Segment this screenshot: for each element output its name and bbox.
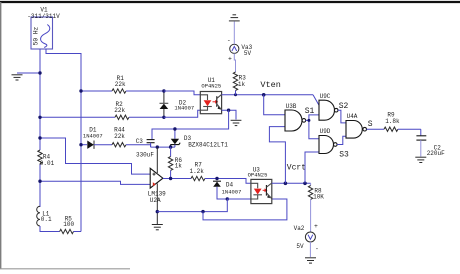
diode D1: [81, 126, 112, 149]
resistor R1: [81, 75, 164, 93]
wire R1 line into U1 pin1: [164, 91, 200, 95]
svg-text:C3: C3: [136, 138, 144, 145]
wire Va3 to inverted ground: [233, 22, 235, 45]
zener diode D3 BZX84C12LT1: [170, 129, 229, 149]
voltage source V1: [27, 7, 60, 50]
svg-text:22k: 22k: [114, 133, 125, 140]
svg-text:1k: 1k: [238, 81, 246, 88]
junction: [307, 119, 310, 122]
junction: [169, 177, 172, 180]
svg-text:+: +: [228, 56, 232, 63]
wire S1 down to U9D input A: [309, 120, 319, 138]
svg-text:+: +: [314, 223, 318, 230]
svg-text:U9C: U9C: [320, 93, 331, 100]
wire V1 left pin to rail1: [39, 49, 41, 150]
svg-text:22k: 22k: [114, 107, 125, 114]
diode D2: [160, 91, 195, 117]
junction: [227, 109, 230, 112]
resistor R9: [384, 111, 421, 131]
svg-text:0.01: 0.01: [40, 160, 55, 167]
optocoupler U1 OP4N25: [200, 77, 221, 114]
nand gate U3B: [285, 103, 306, 131]
net label S1: [305, 107, 315, 116]
svg-text:D4: D4: [226, 182, 234, 189]
junction: [38, 71, 41, 74]
svg-text:220uF: 220uF: [427, 150, 445, 157]
svg-text:S: S: [368, 120, 373, 129]
wire S output to R9: [367, 128, 385, 130]
wire comparator V- to ground: [156, 184, 158, 225]
resistor R3: [233, 72, 246, 95]
nand gate U4A: [346, 113, 367, 138]
svg-text:OP4N25: OP4N25: [248, 171, 268, 178]
junction: [79, 89, 82, 92]
inductor L1: [37, 206, 60, 231]
svg-text:1.8k: 1.8k: [385, 118, 400, 125]
svg-text:0.1: 0.1: [41, 216, 52, 223]
wire Vten to U3B input A: [264, 95, 285, 115]
capacitor C2: [416, 129, 445, 157]
ground: [231, 120, 242, 125]
svg-text:22k: 22k: [115, 81, 126, 88]
junction: [156, 210, 159, 213]
ground: [152, 225, 163, 230]
wire S2 to U4A input A: [338, 110, 346, 123]
resistor R4: [38, 150, 55, 207]
wire U3 collector to Vcrt: [272, 182, 311, 184]
resistor R6: [168, 147, 182, 178]
wire U1 emitter down to clamp net: [152, 110, 229, 139]
svg-text:Va2: Va2: [294, 225, 305, 232]
resistor R5: [60, 216, 81, 234]
wire rail2 down to R5: [80, 145, 82, 232]
svg-text:Vten: Vten: [260, 80, 280, 90]
svg-text:330uF: 330uF: [136, 151, 154, 158]
junction: [38, 136, 41, 139]
net label Vcrt: [287, 163, 306, 172]
svg-text:10K: 10K: [313, 193, 324, 200]
svg-text:S3: S3: [339, 151, 349, 160]
junction: [156, 145, 159, 148]
wire R2 line into U1 pin2: [164, 110, 200, 117]
wire V1 right pin over to rail2: [46, 49, 81, 91]
svg-text:S2: S2: [339, 102, 349, 111]
junction: [38, 116, 41, 119]
voltage source Va3: [227, 37, 253, 63]
svg-text:1N4007: 1N4007: [222, 189, 242, 196]
svg-text:5V: 5V: [296, 243, 304, 250]
junction: [169, 145, 172, 148]
wire Va3 plus to R3: [234, 53, 235, 72]
nand gate U9D: [319, 128, 337, 153]
wire rail2 R1 tap down to D1 tap: [80, 91, 82, 145]
ground: [415, 157, 426, 162]
junction: [226, 197, 229, 200]
diode D4: [213, 181, 241, 199]
net label S3: [339, 151, 349, 160]
svg-text:U9D: U9D: [320, 128, 331, 135]
svg-text:U2A: U2A: [150, 197, 161, 204]
resistor R44: [112, 127, 151, 147]
resistor R7: [189, 161, 250, 183]
net label S2: [339, 102, 349, 111]
wire U1 collector to R3 and Vten: [222, 94, 313, 96]
svg-text:1N4007: 1N4007: [174, 105, 194, 112]
junction: [303, 182, 307, 186]
svg-text:-: -: [227, 37, 231, 44]
wire U1 emitter to ground corner: [222, 110, 236, 119]
junction: [201, 210, 204, 213]
svg-text:U4A: U4A: [347, 113, 358, 120]
net label S: [368, 120, 373, 129]
comparator U2A LM139: [148, 168, 166, 204]
capacitor C3: [136, 138, 155, 159]
wire U3 emitter return loop: [203, 199, 287, 220]
junction: [173, 127, 176, 130]
junction: [162, 116, 165, 119]
svg-text:Vcrt: Vcrt: [287, 163, 306, 172]
wire Va2 to ground: [309, 242, 311, 257]
optocoupler U3 OP4N25: [248, 166, 272, 203]
wire S1 node: [306, 115, 319, 121]
wire comparator plus tap: [40, 138, 150, 174]
junction: [79, 143, 82, 146]
resistor R8: [308, 183, 324, 232]
svg-text:BZX84C12LT1: BZX84C12LT1: [188, 142, 228, 149]
svg-text:-311/311V: -311/311V: [27, 13, 60, 20]
svg-text:5V: 5V: [244, 50, 252, 57]
wire Vten diagonal to U9C input A: [313, 95, 319, 106]
nand gate U9C: [319, 93, 338, 120]
svg-text:1N4007: 1N4007: [83, 132, 103, 139]
voltage source Va2: [294, 223, 319, 253]
wire comparator minus tap: [40, 181, 150, 184]
wire Vcrt riser to U3B input B: [269, 127, 285, 184]
wire S3 to U4A input B: [337, 136, 346, 144]
junction: [38, 180, 41, 183]
junction: [215, 177, 218, 180]
ground: [305, 258, 316, 263]
ground (inverted): [229, 15, 240, 21]
junction Vcrt node: [284, 182, 288, 186]
ground: [12, 73, 41, 80]
junction: [162, 89, 165, 92]
wire Vcrt riser to U9D input B: [305, 152, 319, 183]
wire clamp net bottom: [151, 146, 175, 148]
wire comparator V+ supply: [156, 147, 158, 173]
svg-text:1k: 1k: [175, 163, 183, 170]
wire comparator output: [163, 178, 191, 180]
svg-text:-: -: [315, 246, 319, 253]
junction Vten node: [262, 93, 266, 97]
svg-text:50 Hz: 50 Hz: [32, 26, 39, 45]
wire ground net to D4 node: [157, 199, 227, 212]
svg-text:U3B: U3B: [286, 103, 297, 110]
net label Vten: [260, 80, 280, 90]
resistor R2: [40, 101, 164, 120]
svg-text:OP4N25: OP4N25: [201, 82, 221, 89]
junction: [234, 93, 237, 96]
svg-text:1.2k: 1.2k: [189, 168, 204, 175]
svg-text:100: 100: [63, 221, 74, 228]
wire LED cathode into U3: [227, 198, 251, 200]
